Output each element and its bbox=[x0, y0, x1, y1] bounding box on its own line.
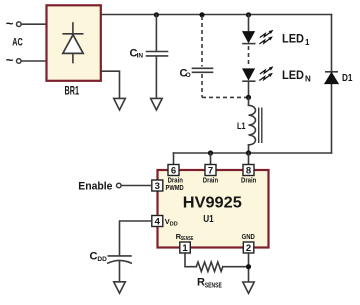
wire pin8 riser bbox=[248, 153, 250, 165]
label CIN bbox=[130, 48, 144, 60]
label RSENSE bbox=[197, 276, 222, 289]
svg-text:AC: AC bbox=[12, 36, 23, 48]
svg-text:D1: D1 bbox=[342, 73, 353, 84]
ground (BR1) bbox=[114, 98, 126, 110]
ground (RSENSE) bbox=[243, 282, 254, 293]
pin 3 bbox=[152, 180, 163, 192]
LED1 emission arrows bbox=[259, 30, 273, 44]
wire dashed LED1-LEDN bbox=[248, 46, 250, 67]
wire BR1 bottom out bbox=[101, 71, 120, 98]
bridge rectifier BR1 bbox=[47, 5, 101, 81]
Enable terminal bbox=[78, 180, 121, 192]
label LED1 bbox=[282, 33, 310, 47]
diode D1 bbox=[325, 72, 338, 84]
pin 1 bbox=[180, 242, 191, 254]
node pin8 junction bbox=[246, 150, 251, 155]
svg-text:Drain: Drain bbox=[203, 176, 219, 185]
node LED branch junction bbox=[246, 12, 251, 17]
wire drain rail bottom bbox=[174, 152, 332, 154]
svg-text:SENSE: SENSE bbox=[181, 236, 194, 242]
LEDN emission arrows bbox=[259, 67, 273, 81]
pin 4 bbox=[152, 216, 163, 228]
ground (CDD) bbox=[114, 282, 126, 293]
svg-text:U1: U1 bbox=[203, 213, 214, 225]
svg-text:HV9925: HV9925 bbox=[183, 194, 242, 211]
svg-text:1: 1 bbox=[305, 38, 310, 47]
wire right rail bbox=[331, 15, 333, 154]
node CIN junction bbox=[154, 12, 159, 17]
svg-text:L1: L1 bbox=[237, 121, 246, 132]
pin 4 label VDD bbox=[165, 217, 178, 228]
svg-text:GND: GND bbox=[242, 232, 256, 241]
svg-text:R: R bbox=[197, 276, 205, 288]
AC terminal 1 (~) bbox=[6, 16, 21, 31]
inductor L1 bbox=[249, 97, 262, 153]
svg-text:LED: LED bbox=[282, 70, 304, 82]
node sense/gnd junction bbox=[246, 264, 251, 269]
wire pin6 riser bbox=[173, 153, 175, 165]
pin 2 bbox=[243, 242, 254, 254]
wire AC1 to BR1 bbox=[21, 23, 46, 25]
LED LED1 bbox=[243, 15, 255, 44]
svg-text:Enable: Enable bbox=[78, 180, 112, 192]
svg-text:IN: IN bbox=[137, 53, 144, 60]
svg-text:PWMD: PWMD bbox=[166, 183, 185, 192]
node L1 top junction bbox=[246, 95, 251, 100]
pin 8 bbox=[243, 165, 254, 177]
node pin7 junction bbox=[208, 150, 213, 155]
wire pin7 riser bbox=[210, 153, 212, 165]
wire Enable to pin 3 bbox=[121, 185, 152, 187]
svg-text:DD: DD bbox=[97, 256, 107, 263]
label CO bbox=[180, 68, 191, 80]
wire pin 2 down bbox=[248, 253, 250, 282]
wire pin 1 down bbox=[185, 253, 196, 267]
capacitor CO (optional, dashed) bbox=[193, 16, 247, 97]
LED LEDN bbox=[243, 69, 255, 98]
op-amp U1 HV9925 body bbox=[158, 170, 269, 248]
svg-text:Drain: Drain bbox=[241, 176, 257, 185]
wire top rail bbox=[101, 14, 332, 16]
resistor RSENSE bbox=[196, 262, 223, 271]
svg-text:O: O bbox=[186, 72, 191, 79]
svg-text:4: 4 bbox=[155, 217, 161, 228]
pin 7 bbox=[205, 165, 216, 177]
label LEDN bbox=[282, 70, 311, 84]
wire pin 4 to CDD bbox=[120, 221, 152, 255]
AC terminal 2 (~) bbox=[6, 53, 21, 68]
node CO junction bbox=[199, 12, 204, 17]
svg-text:SENSE: SENSE bbox=[205, 282, 222, 289]
wire AC2 to BR1 bbox=[21, 60, 46, 62]
svg-text:3: 3 bbox=[155, 181, 160, 192]
svg-text:DD: DD bbox=[170, 222, 178, 228]
svg-text:LED: LED bbox=[282, 33, 304, 45]
wire resistor to GND node bbox=[223, 266, 249, 268]
pin 6 bbox=[168, 165, 179, 177]
capacitor CIN bbox=[147, 15, 168, 99]
svg-text:~: ~ bbox=[6, 16, 14, 31]
ground (CIN) bbox=[151, 98, 163, 110]
label CDD bbox=[90, 251, 108, 264]
pin 1 label RSENSE bbox=[176, 232, 194, 242]
capacitor CDD bbox=[108, 256, 132, 282]
svg-text:BR1: BR1 bbox=[65, 85, 80, 97]
svg-text:C: C bbox=[90, 251, 98, 263]
svg-text:N: N bbox=[305, 74, 311, 83]
svg-text:~: ~ bbox=[6, 53, 14, 68]
